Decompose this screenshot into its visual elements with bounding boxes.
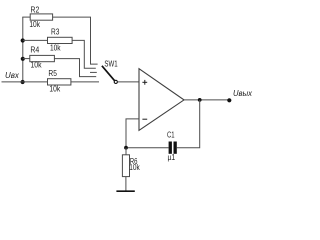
svg-text:10k: 10k: [31, 60, 43, 69]
resistor R4: [30, 46, 55, 70]
wire op-amp output: [184, 99, 229, 101]
svg-text:10k: 10k: [50, 43, 61, 52]
wire switch spare throw 3: [90, 71, 97, 73]
wire feedback from output down: [177, 100, 200, 148]
wire R2 left lead: [22, 16, 30, 18]
wire R4 right lead to switch throw 4: [54, 59, 96, 77]
wire R5 right lead to switch throw 5: [71, 81, 99, 83]
node input line junction: [21, 80, 25, 84]
resistor R5: [48, 69, 71, 93]
wire R4 left lead: [23, 58, 30, 60]
ground: [116, 190, 134, 192]
resistor R2: [29, 6, 52, 30]
wire junction to R6 top: [125, 148, 127, 155]
node R3 tap junction: [21, 38, 25, 42]
svg-text:R2: R2: [31, 6, 40, 15]
svg-text:10k: 10k: [29, 20, 40, 29]
wire input line Uvx: [2, 81, 48, 83]
wire C1 left to R6 node: [126, 147, 169, 149]
svg-text:R5: R5: [48, 69, 57, 78]
svg-text:Uвх: Uвх: [5, 71, 20, 80]
wire input bus vertical left: [22, 17, 24, 82]
wire R6 bottom to ground: [125, 177, 127, 192]
resistor R3: [48, 28, 73, 53]
node R6 C1 junction: [124, 146, 128, 150]
wire R2 right lead to switch throw 1: [53, 17, 98, 64]
wire op-amp minus input: [126, 119, 139, 148]
switch SW1: [102, 59, 118, 83]
svg-text:R3: R3: [51, 28, 60, 37]
capacitor C1: [167, 131, 177, 163]
wire switch pole to op-amp plus input: [117, 81, 139, 83]
svg-text:10k: 10k: [129, 163, 140, 172]
svg-text:µ1: µ1: [168, 153, 176, 162]
wire R3 left lead: [23, 39, 48, 41]
svg-text:SW1: SW1: [104, 59, 118, 68]
resistor R6: [122, 155, 140, 177]
op-amp U1: [139, 69, 184, 131]
svg-text:R4: R4: [30, 46, 39, 55]
node output feedback junction: [198, 98, 202, 102]
svg-text:Uвых: Uвых: [233, 89, 253, 98]
svg-text:C1: C1: [167, 131, 175, 140]
node output terminal: [227, 98, 231, 102]
node R4 tap junction: [21, 57, 25, 61]
svg-text:10k: 10k: [49, 84, 61, 93]
wire R3 right lead to switch throw 2: [72, 40, 96, 68]
